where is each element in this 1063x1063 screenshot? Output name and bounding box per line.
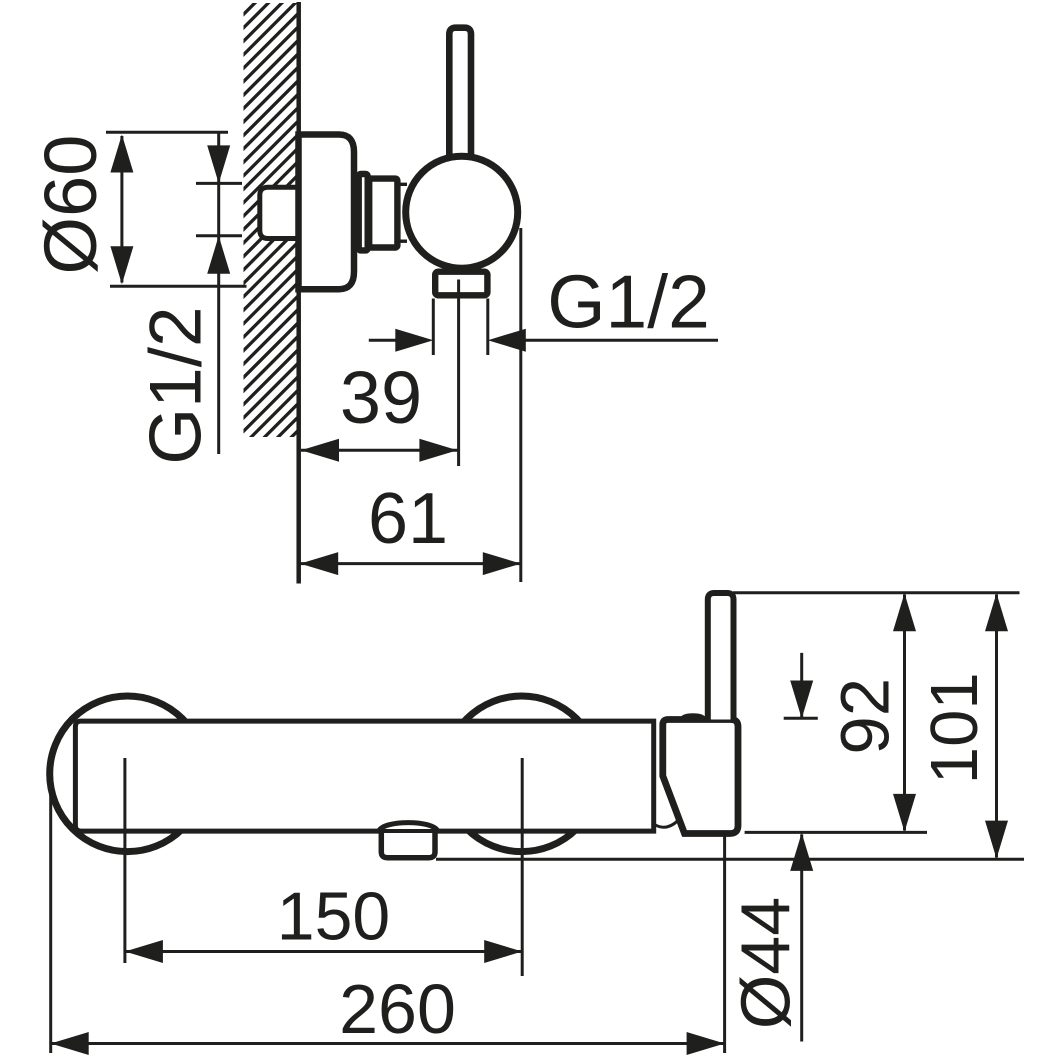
top extension line (rod top) <box>733 591 1020 594</box>
left circle centerline <box>123 758 126 963</box>
dimension 101 <box>995 595 998 858</box>
spout mouthpiece <box>381 830 435 858</box>
dimension 39 <box>301 449 457 452</box>
svg-text:101: 101 <box>917 672 992 784</box>
extension line from circle right edge <box>519 228 522 582</box>
spout bottom extension line <box>436 858 1024 861</box>
dimension Ø44 <box>800 653 803 717</box>
outlet block under circle <box>435 272 487 296</box>
valve cartridge housing <box>663 720 738 834</box>
svg-text:150: 150 <box>277 879 390 955</box>
dimension G1/2 left: ticks <box>196 182 242 185</box>
svg-text:Ø44: Ø44 <box>727 897 805 1029</box>
svg-text:92: 92 <box>827 678 904 755</box>
outlet centerline <box>457 280 460 467</box>
escutcheon plate side view <box>299 135 355 290</box>
spout hub arc <box>655 821 679 828</box>
dimension 150 <box>125 950 522 953</box>
wall hatching <box>244 3 297 437</box>
dimension Ø60: line and arrows <box>120 136 123 283</box>
svg-text:39: 39 <box>340 356 422 439</box>
260 left extension line <box>49 795 52 1053</box>
260 right extension line <box>723 837 726 1054</box>
left wall escutcheon circle <box>50 696 206 852</box>
valve bottom extension line <box>745 831 927 834</box>
dimension G1/2 right <box>369 339 400 342</box>
dimension 260 <box>51 1042 725 1045</box>
handle pivot oval <box>681 713 705 721</box>
sleeve <box>369 179 397 248</box>
wall face line <box>296 2 301 584</box>
mounting flange <box>359 174 368 250</box>
svg-text:G1/2: G1/2 <box>136 306 217 464</box>
dimension G1/2 left: line <box>217 133 220 455</box>
handle rod (front view) <box>708 593 734 720</box>
dimension 92 <box>903 595 906 831</box>
dimension Ø44 tick at valve top <box>784 717 818 720</box>
dimension Ø60: extension ticks <box>106 131 228 134</box>
inlet pipe in wall <box>260 187 302 238</box>
neck lines sleeve-to-body <box>398 183 407 186</box>
spout dome <box>379 823 438 831</box>
svg-text:61: 61 <box>368 479 448 559</box>
valve body circle (side view) <box>406 156 518 268</box>
handle lever rod (side view) <box>449 28 471 160</box>
dimension G1/2 left: arrows <box>207 145 230 183</box>
outlet pipe lines <box>432 299 435 356</box>
right circle centerline <box>521 758 524 976</box>
svg-text:260: 260 <box>339 970 456 1048</box>
right wall escutcheon circle <box>444 696 600 852</box>
svg-text:G1/2: G1/2 <box>547 260 710 344</box>
dimension 61 <box>300 562 521 565</box>
mixer body tube <box>75 721 653 831</box>
svg-text:Ø60: Ø60 <box>29 135 112 275</box>
